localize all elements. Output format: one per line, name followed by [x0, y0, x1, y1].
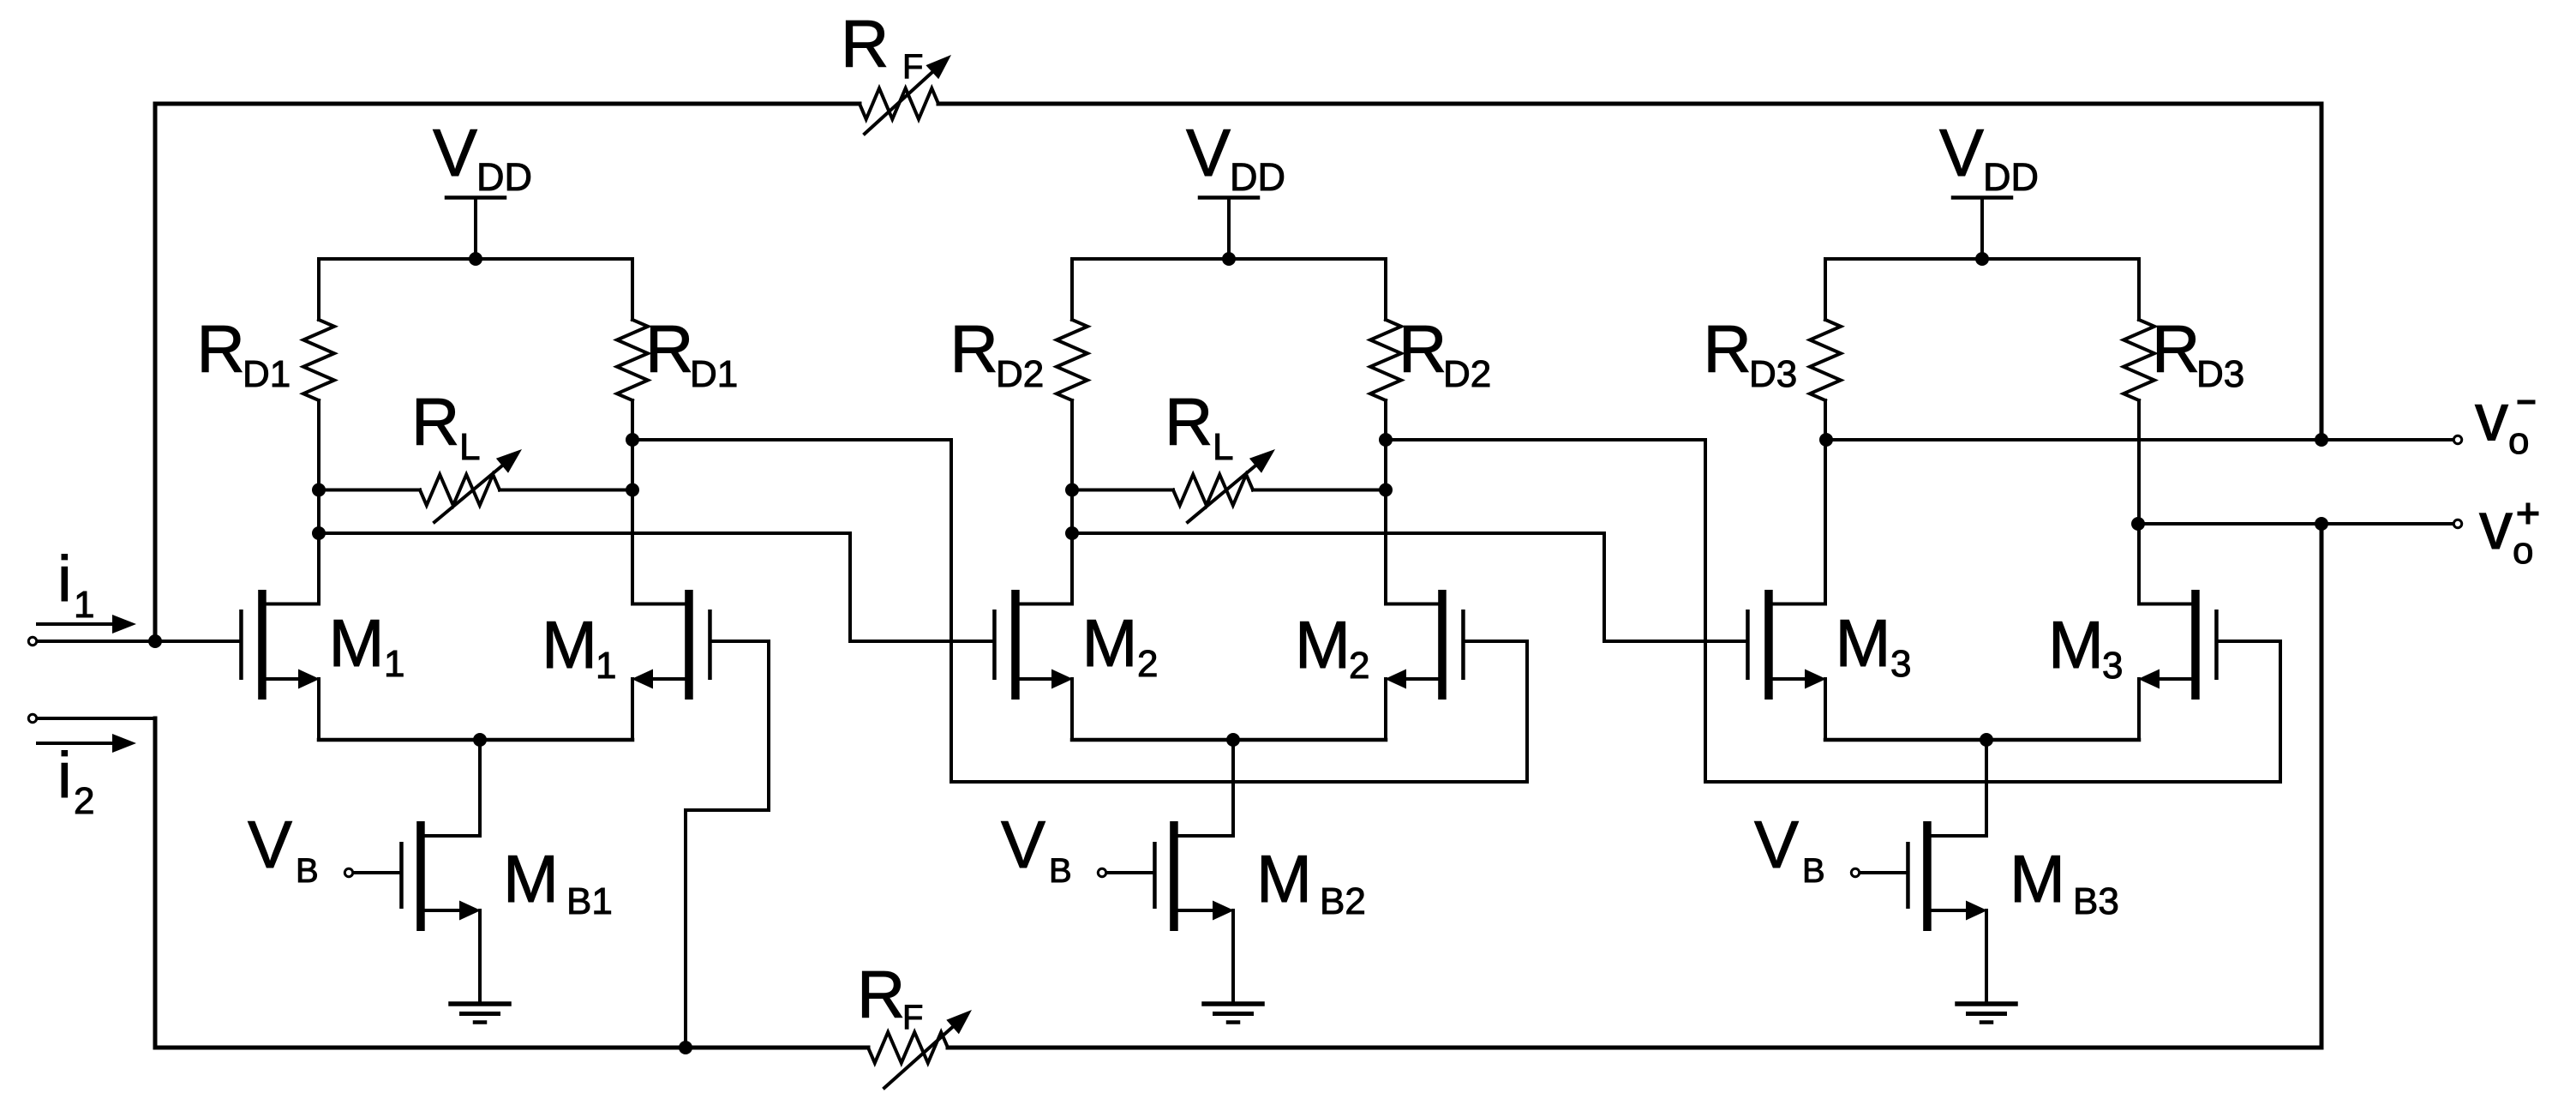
- svg-text:M: M: [1082, 605, 1138, 681]
- svg-text:B: B: [1049, 852, 1072, 890]
- svg-text:V: V: [433, 115, 477, 190]
- svg-text:o: o: [2513, 530, 2533, 572]
- svg-text:V: V: [1939, 115, 1984, 190]
- svg-text:M: M: [1836, 605, 1891, 681]
- svg-text:R: R: [950, 311, 998, 387]
- svg-text:DD: DD: [476, 155, 532, 199]
- svg-text:M: M: [1295, 607, 1351, 682]
- svg-text:B3: B3: [2073, 880, 2119, 922]
- svg-text:3: 3: [1890, 643, 1911, 685]
- svg-text:B: B: [296, 852, 319, 890]
- svg-text:2: 2: [74, 780, 94, 822]
- svg-text:V: V: [1186, 115, 1231, 190]
- svg-text:D3: D3: [2196, 353, 2244, 395]
- svg-text:M: M: [503, 841, 559, 916]
- svg-text:B: B: [1802, 852, 1825, 890]
- svg-text:o: o: [2508, 420, 2529, 462]
- svg-text:R: R: [411, 384, 459, 459]
- svg-text:D1: D1: [690, 353, 738, 395]
- svg-text:D3: D3: [1749, 353, 1797, 395]
- svg-text:v: v: [2479, 488, 2513, 563]
- svg-text:V: V: [1754, 807, 1799, 882]
- svg-text:M: M: [2048, 607, 2104, 682]
- svg-text:1: 1: [596, 645, 616, 687]
- svg-text:L: L: [459, 426, 480, 468]
- svg-text:R: R: [2152, 311, 2200, 387]
- svg-text:2: 2: [1349, 645, 1369, 687]
- svg-text:D2: D2: [1443, 353, 1491, 395]
- svg-text:F: F: [902, 999, 923, 1036]
- svg-text:M: M: [329, 605, 385, 681]
- svg-text:DD: DD: [1230, 155, 1285, 199]
- svg-text:M: M: [2010, 841, 2065, 916]
- svg-text:2: 2: [1137, 643, 1158, 685]
- svg-text:M: M: [542, 607, 597, 682]
- svg-text:1: 1: [74, 584, 94, 626]
- svg-text:V: V: [248, 807, 292, 882]
- svg-text:B2: B2: [1320, 880, 1366, 922]
- svg-text:M: M: [1256, 841, 1312, 916]
- svg-text:i: i: [57, 543, 72, 615]
- svg-text:R: R: [197, 311, 245, 387]
- svg-text:3: 3: [2102, 645, 2123, 687]
- svg-text:DD: DD: [1983, 155, 2039, 199]
- svg-text:R: R: [1165, 384, 1213, 459]
- svg-text:D2: D2: [996, 353, 1044, 395]
- svg-text:D1: D1: [243, 353, 291, 395]
- svg-text:V: V: [1001, 807, 1045, 882]
- svg-text:R: R: [1399, 311, 1447, 387]
- svg-text:i: i: [57, 739, 72, 811]
- svg-text:B1: B1: [566, 880, 613, 922]
- svg-text:R: R: [841, 6, 889, 81]
- svg-text:R: R: [1704, 311, 1752, 387]
- svg-text:1: 1: [384, 643, 404, 685]
- svg-text:R: R: [645, 311, 693, 387]
- svg-text:R: R: [857, 957, 905, 1032]
- svg-text:v: v: [2475, 380, 2508, 455]
- svg-text:F: F: [902, 48, 923, 86]
- svg-text:L: L: [1213, 426, 1233, 468]
